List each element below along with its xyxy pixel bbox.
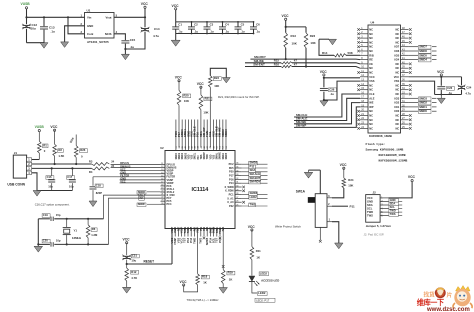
svg-text:R2: R2	[58, 148, 62, 152]
svg-text:C16: C16	[47, 175, 52, 179]
svg-text:.1u: .1u	[225, 30, 229, 34]
svg-text:SW1A: SW1A	[296, 189, 306, 193]
pin top 49 IC1114	[212, 120, 214, 151]
wire VCC tee	[285, 20, 287, 27]
svg-text:VCC: VCC	[369, 75, 375, 79]
wire sw pin2	[332, 205, 348, 207]
svg-text:P14: P14	[229, 182, 234, 185]
svg-text:I/O1: I/O1	[394, 105, 399, 109]
ground	[61, 42, 69, 48]
pin 37 U4	[401, 76, 409, 78]
svg-text:NC: NC	[395, 92, 399, 96]
svg-text:VCC: VCC	[175, 76, 183, 80]
svg-text:VCC: VCC	[367, 196, 373, 200]
wire Cont loop	[68, 17, 85, 34]
net label SCL J2	[388, 208, 402, 210]
svg-text:AT1201_SOT25: AT1201_SOT25	[87, 40, 109, 44]
svg-text:VCC: VCC	[180, 280, 188, 284]
svg-text:10p: 10p	[48, 184, 53, 188]
node Vout-VCC	[144, 16, 146, 18]
svg-text:I/O7: I/O7	[394, 45, 399, 49]
svg-text:NC: NC	[369, 40, 373, 44]
pin 30 U4	[401, 106, 409, 108]
svg-text:10K: 10K	[184, 99, 189, 103]
pin 28 U4	[401, 115, 409, 117]
pin top 50 IC1114	[216, 120, 218, 151]
svg-text:R19: R19	[228, 271, 234, 275]
pin 48 U4	[401, 29, 409, 31]
svg-text:1K: 1K	[203, 281, 207, 285]
svg-text:NC: NC	[369, 66, 373, 70]
no-connect right IC1114	[242, 201, 245, 204]
net label X1	[139, 194, 145, 198]
svg-text:LED2: LED2	[250, 195, 258, 199]
ground sw top	[309, 169, 321, 171]
pin top 42 IC1114	[191, 120, 193, 151]
wire J1 pin4 gnd	[32, 173, 37, 191]
ground for R14	[319, 38, 329, 40]
capacitor C26	[323, 78, 325, 88]
node R2	[54, 163, 56, 165]
capacitor C4	[222, 22, 224, 27]
svg-text:SMD1: SMD1	[179, 152, 181, 159]
wire SM-WP	[294, 107, 360, 128]
pin right 34 IC1114	[235, 171, 242, 173]
svg-text:TWS: TWS	[390, 212, 396, 216]
svg-text:www.dzsc.com: www.dzsc.com	[426, 307, 470, 312]
net label LED2	[258, 292, 268, 296]
net label SMD3	[419, 97, 432, 101]
svg-text:GND: GND	[367, 200, 373, 204]
svg-text:SMD3: SMD3	[224, 129, 228, 137]
svg-text:C21: C21	[132, 254, 138, 258]
svg-text:C26: C26	[329, 87, 335, 91]
resistor R26	[75, 135, 77, 146]
svg-text:R24: R24	[348, 178, 354, 182]
svg-text:.1u: .1u	[51, 29, 56, 33]
svg-text:C20: C20	[43, 239, 48, 243]
svg-text:NC: NC	[395, 83, 399, 87]
resistor R14	[319, 39, 334, 55]
pin 31 U4	[401, 102, 409, 104]
svg-text:PC4: PC4	[167, 203, 172, 206]
svg-text:.1u: .1u	[241, 30, 245, 34]
svg-text:4.7u: 4.7u	[465, 92, 471, 96]
svg-text:R12: R12	[131, 270, 137, 274]
svg-text:Jumper 5, 1.27mm: Jumper 5, 1.27mm	[366, 224, 392, 228]
svg-text:4.7K: 4.7K	[131, 276, 137, 280]
node R13 on SM-RDY	[285, 58, 287, 60]
pin 44 U4	[401, 46, 409, 48]
pin left 21 IC1114	[161, 194, 166, 196]
pin 8 U4	[360, 59, 368, 61]
svg-text:TWS: TWS	[367, 214, 373, 218]
ground	[219, 288, 228, 294]
svg-text:1K: 1K	[256, 255, 260, 259]
node R26	[75, 163, 77, 165]
svg-text:NC: NC	[369, 114, 373, 118]
svg-text:SDA: SDA	[390, 201, 396, 205]
svg-text:U2: U2	[160, 146, 164, 150]
led LED2	[249, 276, 255, 281]
wire VUSB to rail	[26, 9, 28, 17]
svg-text:X_RDN: X_RDN	[225, 190, 234, 193]
svg-text:C15: C15	[130, 38, 136, 42]
net label SM-RDY	[242, 182, 268, 184]
regulator U1	[85, 13, 115, 39]
wire I/O1 net	[409, 106, 418, 108]
ground	[440, 95, 442, 99]
net label TWD J2	[388, 211, 402, 213]
pin 43 U4	[401, 50, 409, 52]
wire VSS pin13 loop	[324, 81, 360, 100]
capacitor C18	[92, 177, 94, 186]
svg-text:VUSB: VUSB	[35, 125, 45, 129]
svg-text:VSS: VSS	[213, 154, 215, 159]
pin 33 U4	[401, 93, 409, 95]
svg-text:P16: P16	[229, 178, 234, 181]
wire SM-WE left	[245, 62, 281, 64]
no-connect right IC1114	[242, 190, 245, 193]
svg-text:VCC: VCC	[50, 125, 58, 129]
wire VCC stem	[175, 10, 177, 22]
wire DMINUS line	[32, 167, 92, 169]
svg-text:NC: NC	[395, 71, 399, 75]
svg-text:C18: C18	[96, 183, 101, 187]
svg-text:WE: WE	[369, 101, 373, 105]
pin 19 U4	[360, 106, 368, 108]
wire VCC stem	[144, 8, 146, 17]
resistor R6	[87, 219, 89, 225]
svg-text:Flash type:: Flash type:	[366, 142, 386, 146]
ground	[40, 43, 48, 49]
wire to ground	[175, 34, 177, 41]
net label DPLUS left	[111, 164, 161, 166]
pin right 32 IC1114	[235, 178, 242, 180]
capacitor C16	[51, 168, 53, 178]
svg-text:I/O0: I/O0	[394, 109, 399, 113]
svg-text:R18: R18	[202, 275, 208, 279]
wire xtal left	[37, 219, 39, 245]
pin 1 SW1A	[327, 221, 332, 223]
svg-text:P10: P10	[198, 155, 200, 160]
svg-text:NC: NC	[369, 32, 373, 36]
svg-text:IC1114: IC1114	[192, 187, 209, 193]
net label SMD6	[419, 50, 432, 54]
capacitor C20	[50, 242, 52, 246]
svg-text:LED2: LED2	[258, 291, 266, 295]
pin left 13 IC1114	[161, 170, 166, 172]
pin 13 U4	[360, 80, 368, 82]
pin top 39 IC1114	[181, 120, 183, 151]
wire GND pin 2	[65, 26, 85, 42]
svg-text:24: 24	[111, 164, 114, 168]
svg-text:SMCL: SMCL	[195, 152, 197, 159]
resistor R20	[178, 81, 180, 91]
net label X2	[139, 197, 145, 201]
pin right 29 IC1114	[235, 190, 242, 192]
net label VCC left	[120, 170, 161, 172]
pin 15 U4	[360, 89, 368, 91]
svg-text:K9F1G08U0M_16MB: K9F1G08U0M_16MB	[379, 154, 406, 157]
net label SMD5	[419, 54, 432, 58]
resistor R22	[209, 76, 213, 88]
pin 7 U4	[360, 54, 368, 56]
svg-text:SCL: SCL	[390, 205, 396, 209]
resistor R13	[285, 27, 287, 33]
pin 45 U4	[401, 41, 409, 43]
svg-text:White Protect Switch: White Protect Switch	[275, 224, 301, 228]
wire VCC loop R18	[184, 285, 198, 292]
pin right 26 IC1114	[235, 201, 242, 203]
wire VCC pin37	[409, 76, 462, 78]
wire input rail	[27, 16, 85, 18]
ground	[89, 201, 97, 207]
resistor R1	[38, 132, 40, 142]
svg-text:PC2: PC2	[229, 163, 234, 166]
capacitor C1	[175, 22, 177, 27]
pin 2 SW1A	[327, 205, 332, 207]
resistor R12	[125, 268, 129, 281]
pin 16 U4	[360, 93, 368, 95]
pin 5 U4	[360, 46, 368, 48]
svg-text:1.5K: 1.5K	[58, 154, 64, 158]
svg-text:.1u: .1u	[256, 30, 260, 34]
net label P11	[242, 167, 268, 169]
svg-text:VCC: VCC	[408, 175, 416, 179]
net label SMD1	[419, 106, 432, 110]
resistor R15	[281, 62, 292, 64]
node C26 gnd	[323, 99, 325, 101]
svg-text:1K: 1K	[229, 277, 233, 281]
usb connector J1	[13, 155, 26, 178]
svg-text:X_A1: X_A1	[227, 197, 234, 200]
pin left 12 IC1114	[161, 167, 166, 169]
pin 3 J1	[27, 167, 32, 170]
pin 36 U4	[401, 80, 409, 82]
net label DMINUS left	[111, 167, 161, 169]
node R6 top	[87, 218, 89, 220]
resistor R19	[221, 270, 225, 284]
net label GND left	[120, 179, 161, 181]
node at C13	[43, 16, 45, 18]
node Vin-Cont tie	[67, 16, 69, 18]
net label SMD4	[419, 58, 432, 62]
svg-text:C19: C19	[43, 213, 48, 217]
net label GND left	[120, 173, 161, 175]
svg-text:C4: C4	[225, 22, 229, 26]
pin 29 U4	[401, 110, 409, 112]
node VCC C23	[440, 76, 442, 78]
svg-text:LED2: LED2	[260, 271, 268, 275]
pin left 20 IC1114	[161, 191, 166, 193]
svg-text:NC: NC	[395, 118, 399, 122]
svg-text:NC: NC	[395, 88, 399, 92]
net label SMD2	[419, 101, 432, 105]
svg-text:NC: NC	[395, 36, 399, 40]
wire sw bottom stub	[319, 227, 321, 240]
resistor R4	[92, 167, 110, 170]
capacitor C2	[191, 22, 193, 27]
svg-text:P22: P22	[229, 205, 234, 208]
wire cap bank top rail	[176, 21, 254, 23]
svg-text:NC: NC	[395, 28, 399, 32]
text led note	[255, 298, 275, 302]
wire NC/S pin to C15	[114, 34, 125, 40]
svg-text:TWS: TWS	[199, 238, 203, 244]
svg-text:VDD: VDD	[188, 154, 190, 159]
svg-text:SMDF: SMDF	[138, 202, 146, 206]
wire sw top	[319, 170, 321, 194]
svg-text:R20: R20	[183, 93, 189, 97]
svg-text:R21: R21	[205, 97, 211, 101]
capacitor C3	[206, 22, 208, 27]
pin 23 U4	[360, 123, 368, 125]
svg-text:R3: R3	[89, 159, 93, 163]
wire J2 VCC	[388, 182, 412, 198]
svg-text:NC: NC	[369, 28, 373, 32]
svg-text:SMD5: SMD5	[226, 152, 228, 159]
pin left 23 IC1114	[161, 200, 166, 202]
svg-text:SMD4: SMD4	[419, 58, 427, 62]
svg-text:TMS: TMS	[201, 154, 203, 159]
svg-text:VCC: VCC	[320, 70, 328, 74]
pin 21 U4	[360, 115, 368, 117]
net label SMD7	[419, 45, 432, 49]
svg-text:C1: C1	[178, 22, 182, 26]
ground	[121, 54, 129, 60]
svg-text:R4: R4	[89, 170, 93, 174]
wire I/O3 net	[409, 97, 418, 99]
svg-text:R13: R13	[291, 34, 297, 38]
svg-text:CE: CE	[369, 62, 373, 66]
pin 47 U4	[401, 33, 409, 35]
svg-text:WP: WP	[369, 105, 373, 109]
wire SM-ENT left	[245, 66, 281, 68]
svg-text:VCC: VCC	[197, 82, 205, 86]
resistor R24	[343, 168, 345, 178]
net label SMD6 left	[147, 191, 161, 193]
svg-text:NC: NC	[395, 40, 399, 44]
wire I/O5 net	[409, 54, 418, 56]
svg-text:10p: 10p	[69, 184, 74, 188]
svg-text:NC/S: NC/S	[105, 32, 112, 36]
svg-text:NC: NC	[369, 49, 373, 53]
pin 9 U4	[360, 63, 368, 65]
svg-text:10u: 10u	[31, 27, 36, 31]
svg-text:U4: U4	[371, 21, 375, 25]
resistor R18	[196, 274, 200, 285]
svg-text:GND: GND	[390, 198, 396, 202]
pin 22 U4	[360, 119, 368, 121]
svg-text:10K: 10K	[292, 42, 298, 46]
net label TWS J2	[388, 215, 402, 217]
wire I/O6 net	[409, 50, 418, 52]
svg-text:VCC: VCC	[437, 70, 445, 74]
wire I/O4 net	[409, 59, 418, 61]
svg-text:U1: U1	[87, 8, 91, 12]
wire SM-WE right	[292, 63, 360, 64]
svg-text:VUSB: VUSB	[21, 2, 31, 6]
svg-text:NC: NC	[369, 118, 373, 122]
svg-text:SM-RDY: SM-RDY	[250, 180, 261, 184]
svg-text:Y1: Y1	[74, 228, 78, 232]
pin 25 U4	[401, 127, 409, 129]
svg-text:I/O3: I/O3	[394, 96, 399, 100]
svg-text:NC: NC	[369, 71, 373, 75]
wire I/O7 net	[409, 46, 418, 48]
svg-text:Vout: Vout	[105, 16, 111, 20]
pin left 22 IC1114	[161, 197, 166, 199]
wire SM-CLE	[294, 94, 360, 117]
svg-text:C17: C17	[67, 175, 72, 179]
svg-text:10K: 10K	[310, 41, 316, 45]
ground	[171, 40, 180, 46]
svg-text:NC: NC	[395, 114, 399, 118]
svg-text:R26: R26	[80, 148, 86, 152]
svg-text:VCC: VCC	[394, 75, 400, 79]
pin left 19 IC1114	[161, 188, 166, 190]
pin left 17 IC1114	[161, 182, 166, 184]
svg-text:Vin: Vin	[87, 16, 92, 20]
svg-text:10K: 10K	[203, 110, 208, 114]
svg-text:NC: NC	[395, 32, 399, 36]
pin top 46 IC1114	[203, 120, 205, 151]
pin top 47 IC1114	[206, 120, 208, 151]
pin top 53 IC1114	[225, 120, 227, 151]
capacitor C24	[461, 77, 463, 85]
pin 14 U4	[360, 84, 368, 86]
wire RESET	[127, 263, 172, 265]
svg-text:NC: NC	[395, 62, 399, 66]
wire gnd rail below C12 C13	[27, 42, 45, 44]
svg-text:SCL: SCL	[367, 207, 373, 211]
wire I/O0 net	[409, 110, 418, 112]
svg-text:SMD4: SMD4	[222, 152, 225, 159]
wire sw pin3 to R24	[332, 188, 344, 198]
net label SM-ALE	[242, 175, 268, 177]
net label GND J2	[388, 200, 402, 202]
no-connect bottom IC1114	[203, 237, 206, 240]
wire I/O2 net	[409, 102, 418, 104]
pin 34 U4	[401, 89, 409, 91]
pin 2 U4	[360, 33, 368, 35]
pin 12 U4	[360, 76, 368, 78]
pin top 41 IC1114	[187, 120, 189, 151]
net label SMDF left	[147, 203, 161, 205]
net label TW5	[242, 205, 268, 207]
svg-text:LED2: P17: LED2: P17	[256, 298, 270, 302]
svg-text:维库一下: 维库一下	[417, 298, 444, 307]
svg-text:C24: C24	[466, 85, 472, 89]
pin top 43 IC1114	[194, 120, 196, 151]
svg-text:VDD: VDD	[210, 154, 212, 159]
svg-text:X_WRN: X_WRN	[224, 186, 233, 189]
pin 40 U4	[401, 63, 409, 65]
svg-text:R11: R11	[256, 249, 261, 253]
ground	[122, 287, 131, 293]
svg-text:C3: C3	[210, 22, 214, 26]
capacitor C6	[253, 22, 255, 27]
svg-text:Samsung K9F08000_16MB: Samsung K9F08000_16MB	[366, 149, 404, 152]
ground	[33, 191, 41, 197]
net label SDA J2	[388, 204, 402, 206]
svg-text:.1u: .1u	[194, 30, 198, 34]
pin top 52 IC1114	[222, 120, 224, 151]
svg-text:ALE: ALE	[369, 96, 374, 100]
svg-text:VSS: VSS	[369, 79, 374, 83]
net label SMD6	[242, 194, 268, 196]
